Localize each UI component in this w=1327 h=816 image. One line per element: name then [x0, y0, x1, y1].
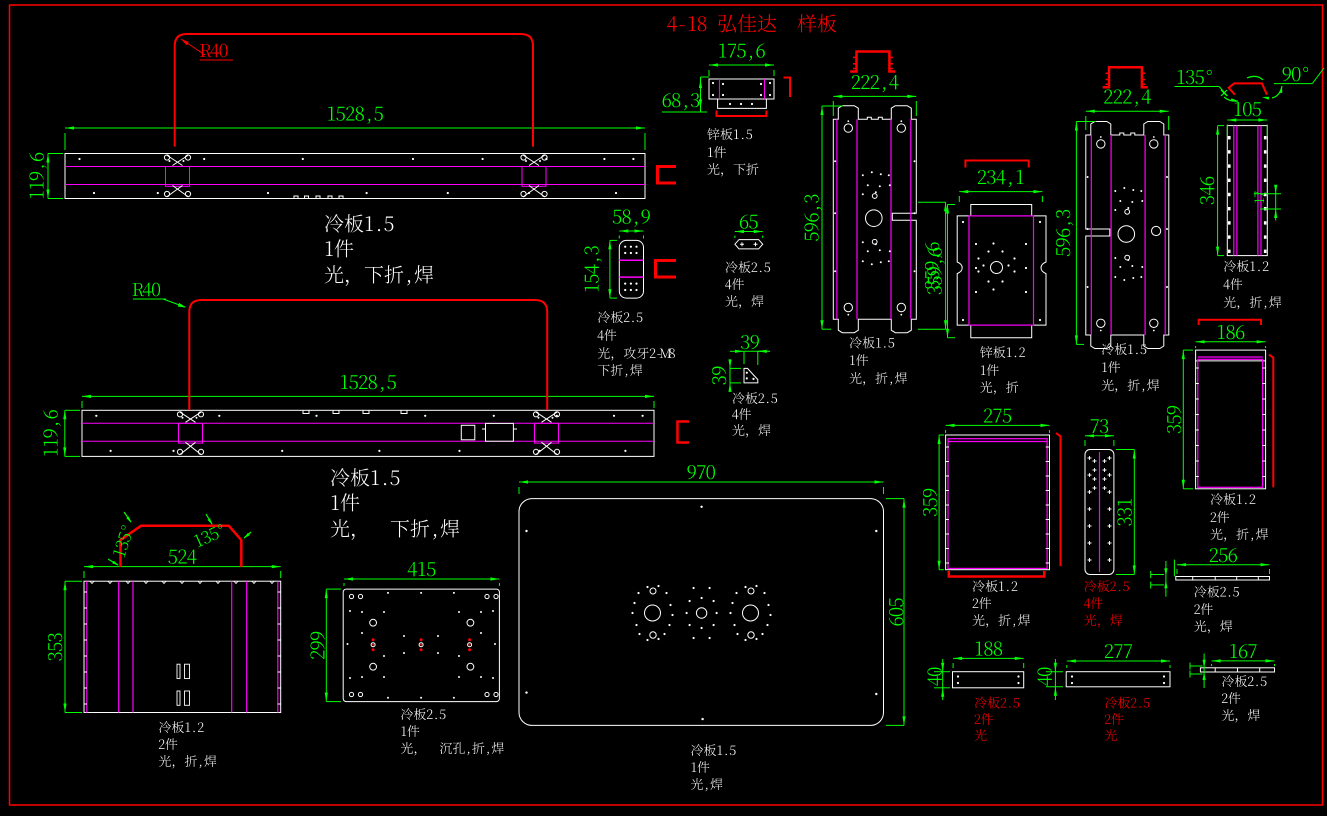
red bend section symbol — [1229, 83, 1267, 94]
plate 222,4 center hole — [866, 210, 883, 227]
plate 222,4 small holes — [1125, 209, 1130, 214]
part B dimension 1528,5 — [82, 395, 654, 397]
part 524 angle label 135 left — [112, 525, 134, 558]
part 锌板1.5 dimension 175,6 — [709, 64, 774, 66]
strip detail magenta rect — [179, 423, 203, 443]
strip detail magenta rect — [535, 423, 559, 443]
part 105 edge ticks — [1228, 136, 1231, 139]
part 415 dimension 415 — [344, 578, 499, 580]
part 970 dimension 970 — [519, 481, 884, 483]
part 65 caption 冷板2.5 4件 光，焊 — [726, 261, 770, 273]
green angle arc arrows — [1224, 97, 1238, 101]
part 73 plus marks — [1088, 456, 1092, 460]
part 415 corner holes — [349, 594, 353, 598]
plate 222,4 edge dots — [834, 160, 836, 162]
part 275 caption 冷板1.2 2件 光，折,焊 — [973, 580, 1018, 592]
part 524 dimension 353 — [64, 581, 66, 712]
part 524 angle label 135 right — [193, 523, 226, 547]
part 275 dimension 359 — [938, 435, 940, 570]
part 524 red bend profile — [121, 526, 242, 567]
plate 222,4 dot clusters — [1114, 276, 1116, 278]
part 970 center hole clusters — [645, 605, 661, 621]
part 39 caption 冷板2.5 4件 光，焊 — [733, 392, 777, 404]
part 65 冷板2.5 outline — [735, 240, 763, 249]
part 222,4 #1 dimension 222,4 — [833, 95, 916, 97]
part 73 dimension 73 — [1085, 435, 1114, 437]
part 锌板1.5 caption 锌板1.5 1件 光，下折 — [707, 128, 752, 140]
part 186 dimension 359 — [1182, 350, 1184, 489]
part A dimension 119,6 — [47, 154, 49, 199]
label 90 degrees — [1283, 67, 1309, 81]
part 524 angle arrows — [124, 512, 131, 522]
strip bend line lower — [82, 440, 654, 442]
part 415 caption 冷板2.5 1件 光，沉孔,折,焊 — [401, 708, 445, 720]
part 186 bend lines — [1198, 359, 1263, 487]
plate 222,4 small holes — [872, 194, 877, 199]
title 4-18 弘佳达 样板 — [667, 14, 836, 32]
label 135 degrees — [1178, 70, 1212, 84]
part 222,4 #1 dimension 596,3 — [821, 106, 823, 329]
plate 222,4 outline — [1086, 122, 1169, 349]
part 256 caption 冷板2.5 2件 光，焊 — [1194, 586, 1238, 598]
strip detail X notches — [180, 412, 202, 423]
part 222,4 #2 red bend profile — [1103, 67, 1148, 87]
part 73 dimension 331 — [1133, 450, 1135, 575]
part 39 dimension vertical — [729, 362, 731, 390]
part 970 corner and edge holes — [525, 530, 527, 532]
plate 222,4 bend lines — [836, 119, 838, 319]
strip detail magenta rect — [166, 167, 190, 187]
part 58,9 holes — [624, 246, 626, 248]
part 277 dimension 40 — [1054, 659, 1056, 700]
part 222,4 #2 dimension 596,3 — [1075, 122, 1077, 345]
part 234,1 corner holes — [962, 221, 964, 223]
part 234,1 锌板1.2 outline — [957, 205, 1046, 338]
part 58,9 caption 冷板2.5 4件 光，攻牙2-M8 下折,焊 — [598, 311, 642, 323]
strip outline — [65, 154, 645, 199]
strip bend line upper — [82, 422, 654, 424]
part 188 caption red 冷板2.5 2件 光 — [975, 697, 1019, 709]
part 186 caption 冷板1.2 2件 光，折,焊 — [1211, 493, 1256, 505]
part 275 dimension 275 — [946, 424, 1050, 426]
part B caption 冷板1.5 1件 光，下折,焊 — [331, 468, 399, 486]
part 234,1 red top bracket — [965, 161, 1028, 168]
plate 222,4 edge dots — [1087, 176, 1089, 178]
part 234,1 dimension 234,1 — [959, 191, 1042, 193]
part 524 top edge ticks — [90, 581, 94, 583]
part 186 冷板1.2 outline — [1196, 350, 1266, 489]
part 234,1 hole cluster — [977, 257, 979, 259]
part 277 dimension 277 — [1067, 660, 1170, 662]
part 234,1 center hole — [991, 262, 1003, 274]
part 188 冷板2.5 outline — [953, 672, 1024, 688]
red bracket mark 2 — [656, 261, 677, 278]
part 167 caption 冷板2.5 2件 光，焊 — [1222, 675, 1266, 687]
red bracket mark 1 — [658, 167, 677, 184]
strip holes — [95, 415, 97, 417]
part B top edge notches — [303, 410, 309, 413]
part 222,4 #2 caption 冷板1.5 1件 光，折,焊 — [1102, 343, 1146, 355]
part 256 冷板2.5 outline — [1176, 577, 1270, 581]
part 415 dimension 299 — [325, 589, 327, 702]
part A bottom edge notches — [294, 196, 298, 199]
part 277 冷板2.5 outline — [1066, 672, 1170, 687]
part 锌板1.5 outline — [709, 79, 774, 99]
part 167 dimension 167 — [1212, 660, 1275, 662]
part B cutout small square — [461, 425, 475, 440]
part 58,9 bend lines — [619, 259, 643, 261]
part 105 dimension 346 — [1217, 126, 1219, 256]
part 970 middle cluster — [696, 608, 706, 618]
part 222,4 #2 dimension 222,4 — [1086, 110, 1169, 112]
part 524 bend lines — [86, 581, 88, 712]
strip bend line upper — [65, 166, 645, 168]
part 275 red right line — [1056, 433, 1061, 566]
part 105 small pitch dim — [1254, 193, 1281, 195]
part 73 caption red 冷板2.5 4件 光，焊 — [1084, 580, 1128, 592]
plate 222,4 center hole — [1118, 226, 1135, 243]
part A R40 leader and label — [181, 39, 205, 55]
part 65 dimension — [735, 231, 763, 233]
part 275 bend lines — [948, 439, 1047, 569]
part A dimension 1528,5 — [65, 127, 645, 129]
part 锌板1.5 dimension 68,3 — [700, 77, 702, 112]
strip detail magenta rect — [522, 167, 546, 187]
plate 222,4 outline — [833, 106, 916, 333]
part 234,1 caption 锌板1.2 1件 光，折 — [980, 346, 1025, 358]
part 275 edge ticks — [946, 446, 949, 448]
part 970 冷板1.5 outline — [519, 499, 884, 726]
part B cutout rectangle — [486, 423, 514, 441]
part 186 edge ticks — [1196, 367, 1199, 369]
part 234,1 bend rect — [969, 216, 1034, 325]
part 524 dimension 524 — [84, 566, 281, 568]
part 105 bend lines — [1233, 126, 1235, 256]
part 524 caption 冷板1.2 2件 光，折,焊 — [159, 721, 204, 733]
strip detail X notches — [167, 155, 189, 166]
plate 222,4 dot clusters — [862, 260, 864, 262]
part 锌板1.5 red mark below — [717, 111, 767, 117]
plate 222,4 mid right circle — [1152, 226, 1161, 235]
part 970 caption 冷板1.5 1件 光,焊 — [691, 744, 735, 756]
part 188 dimension 40 — [942, 659, 944, 700]
strip outline — [82, 410, 654, 456]
red bracket mark 3 — [678, 422, 690, 443]
part 415 small holes — [387, 592, 389, 594]
part B red bend profile — [189, 300, 547, 410]
part 524 center slots — [177, 664, 180, 678]
part 39 冷板2.5 triangle outline — [744, 368, 758, 383]
part 167 冷板2.5 outline — [1200, 668, 1274, 672]
part 970 dimension 605 — [903, 499, 905, 726]
strip holes — [78, 158, 80, 160]
part 39 holes — [746, 372, 748, 374]
part 105 caption 冷板1.2 4件 光，折,焊 — [1224, 260, 1269, 272]
part A red bend profile R40 — [175, 34, 533, 147]
part 222,4 #1 red bend profile — [850, 52, 895, 72]
strip bend line lower — [65, 184, 645, 186]
part 234,1 dimension 359,6 — [947, 205, 949, 338]
part 186 red right line — [1269, 355, 1273, 488]
part 256 left end dims — [1151, 574, 1164, 576]
strip detail X notches — [523, 155, 545, 166]
part 58,9 冷板2.5 outline — [619, 240, 643, 298]
part 524 edge ticks — [84, 591, 87, 593]
plate 222,4 ear holes — [1097, 140, 1105, 148]
plate 222,4 bend lines — [1164, 135, 1166, 335]
part 275 red bottom line — [949, 571, 1044, 577]
part 锌板1.5 red mark right — [784, 78, 791, 98]
part 58,9 dimension 154,3 — [609, 240, 611, 298]
part 39 dimension horizontal — [736, 350, 764, 352]
strip detail X notches — [536, 412, 558, 423]
part 256 dimension 256 — [1177, 564, 1270, 566]
part 524 冷板1.2 outline — [84, 581, 281, 712]
part 222,4 #1 dimension 359,6 — [945, 202, 947, 329]
part 105 dimension 105 — [1227, 119, 1267, 121]
part 222,4 #1 caption 冷板1.5 1件 光，折,焊 — [850, 337, 894, 349]
part 277 caption red 冷板2.5 2件 光 — [1105, 697, 1149, 709]
part 锌板1.5 flap — [718, 99, 767, 108]
part B R40 green label and leader — [133, 283, 161, 297]
part 73 bend line — [1099, 452, 1101, 572]
part B dimension 119,6 — [64, 410, 66, 456]
part 186 dimension 186 — [1196, 341, 1266, 343]
part 73 冷板2.5 outline — [1085, 450, 1114, 575]
part 锌板1.5 holes — [712, 82, 714, 84]
part 415 big holes — [370, 619, 377, 626]
part 锌板1.5 bend lines — [718, 79, 720, 99]
part 58,9 dimension 58,9 — [619, 230, 643, 232]
part 415 countersunk slots — [371, 643, 375, 647]
part 105 冷板1.2 outline — [1227, 126, 1267, 256]
part 188 dimension 188 — [953, 657, 1024, 659]
plate 222,4 ear holes — [844, 124, 852, 132]
part 65 marks — [740, 242, 744, 246]
part 415 冷板2.5 outline — [343, 589, 499, 702]
part 167 left end dims — [1190, 665, 1203, 667]
part A caption 冷板1.5 1件 光，下折,焊 — [325, 214, 393, 232]
part 275 冷板1.2 outline — [946, 435, 1050, 570]
part 186 red top bracket — [1199, 320, 1261, 325]
